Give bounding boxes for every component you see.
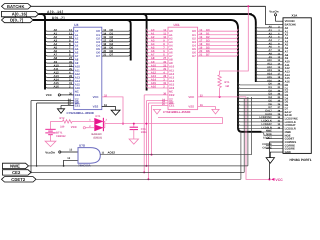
wire UX1 pin D5	[198, 46, 238, 49]
svg-text:330: 330	[60, 125, 65, 128]
wire UX1 pin A9	[147, 61, 168, 64]
svg-text:A16: A16	[54, 85, 60, 89]
svg-text:R?1: R?1	[225, 81, 230, 84]
wire U4 pin D7	[102, 54, 131, 57]
gate U?D 74HC00A	[78, 148, 100, 164]
junction BATCHK	[247, 5, 249, 7]
wire UX1 pin A8	[147, 57, 168, 60]
svg-text:13: 13	[103, 29, 106, 32]
ground UX1 VSS	[212, 109, 219, 114]
port D[0..7]	[2, 17, 34, 22]
svg-text:20: 20	[103, 50, 106, 53]
svg-text:23: 23	[69, 64, 72, 67]
wire U4 pin A8	[45, 57, 74, 60]
wire NWE line	[29, 165, 248, 167]
svg-text:23: 23	[163, 64, 166, 67]
wire VCC net vertical	[246, 97, 270, 179]
wire UX1 pin WE	[148, 102, 168, 104]
junction UX1 CE1	[151, 154, 153, 156]
svg-text:100n: 100n	[141, 131, 147, 134]
svg-text:18: 18	[199, 43, 202, 46]
wire UX1 pin A11	[147, 68, 168, 71]
wire UX1 pin A13	[147, 75, 168, 78]
wire UX1 pin A3	[147, 39, 168, 42]
svg-text:VCC: VCC	[93, 95, 99, 99]
svg-text:12: 12	[163, 29, 166, 32]
wire UX1 pin D7	[198, 54, 238, 57]
ground X1A GND	[266, 158, 274, 164]
port NWE	[3, 163, 29, 168]
svg-text:27: 27	[163, 57, 166, 60]
junction U4 WE	[36, 165, 38, 167]
svg-text:25: 25	[69, 68, 72, 71]
svg-text:26: 26	[69, 61, 72, 64]
ground C1	[129, 139, 138, 144]
svg-text:28: 28	[69, 75, 72, 78]
wire BATCHK sense vertical	[220, 6, 249, 75]
svg-text:VCC: VCC	[188, 95, 194, 99]
svg-text:CY62128ELL-45SXE: CY62128ELL-45SXE	[163, 110, 191, 114]
wire BATCHK	[31, 5, 266, 7]
wire U4 pin D0	[102, 29, 131, 32]
sram UX1	[168, 27, 198, 109]
wire UX1 pin D0	[198, 29, 238, 32]
wire U4 pin A2	[45, 36, 74, 39]
svg-text:UX1: UX1	[174, 23, 180, 27]
junction UX1 WE	[147, 178, 149, 180]
svg-text:74HC00A: 74HC00A	[78, 163, 92, 167]
bus D main vertical (right)	[231, 20, 262, 132]
svg-text:21: 21	[199, 54, 202, 57]
wire UX1 pin D4	[198, 43, 238, 46]
svg-text:1M: 1M	[225, 85, 229, 88]
svg-text:28: 28	[163, 75, 166, 78]
bus connector feed vertical (A)	[249, 14, 256, 82]
wire UX1 pin A2	[147, 36, 168, 39]
svg-text:19: 19	[199, 47, 202, 50]
wire U4 pin A0	[45, 29, 74, 32]
wire U4 pin A7	[45, 54, 74, 57]
ground U4 CE1	[57, 109, 64, 114]
wire U4 pin A5	[45, 46, 74, 49]
svg-text:BATCHK: BATCHK	[7, 4, 25, 9]
svg-text:D7: D7	[206, 53, 210, 57]
svg-text:D7: D7	[96, 54, 100, 58]
svg-text:CY62128ELL-45SXE: CY62128ELL-45SXE	[67, 111, 95, 115]
svg-text:VCC: VCC	[275, 178, 283, 182]
svg-text:11: 11	[163, 32, 166, 35]
wire U4 pin A11	[45, 68, 74, 71]
wire UX1 pin D6	[198, 50, 238, 53]
bus UX1 address vertical	[143, 14, 147, 90]
wire UX1 pin A1	[147, 32, 168, 35]
svg-text:VCC: VCC	[46, 93, 53, 97]
svg-text:CODET: CODET	[263, 136, 272, 139]
wire UX1 pin A10	[147, 64, 168, 67]
wire CE2 line	[31, 171, 244, 173]
wire U4 pin OE	[31, 100, 74, 102]
svg-text:13: 13	[199, 29, 202, 32]
svg-text:15: 15	[103, 36, 106, 39]
port CDET2	[2, 177, 37, 182]
wire U4 pin A13	[45, 75, 74, 78]
wire UX1 pin A5	[147, 46, 168, 49]
svg-text:CE2: CE2	[12, 170, 21, 175]
svg-text:VCC: VCC	[71, 125, 78, 129]
svg-text:17: 17	[103, 39, 106, 42]
svg-text:19: 19	[103, 47, 106, 50]
svg-text:GND: GND	[285, 151, 291, 154]
wire VSS link	[158, 118, 223, 124]
svg-text:U4: U4	[74, 23, 78, 27]
wire UX1 pin A4	[147, 43, 168, 46]
svg-text:AOE2: AOE2	[108, 151, 116, 155]
wire UX1 CE2	[144, 94, 168, 96]
svg-text:D?1: D?1	[96, 115, 101, 118]
junction rail/control	[145, 123, 147, 125]
svg-text:CE2: CE2	[169, 93, 175, 97]
wire UX1 pin A14	[147, 78, 168, 81]
svg-text:18: 18	[103, 43, 106, 46]
bus D vertical (left)	[127, 20, 131, 61]
svg-text:R?2: R?2	[60, 117, 65, 120]
wire UX1 pin A7	[147, 54, 168, 57]
svg-text:A[0..16]: A[0..16]	[47, 10, 64, 14]
wire UX1 pin D3	[198, 39, 238, 42]
wire U4 pin A14	[45, 78, 74, 81]
svg-text:25: 25	[163, 68, 166, 71]
svg-text:15: 15	[199, 36, 202, 39]
svg-text:CR2032: CR2032	[56, 135, 66, 138]
bus A[0..16] horizontal	[39, 13, 252, 15]
junction gate pin 12	[63, 165, 65, 167]
wire UX1 pin A6	[147, 50, 168, 53]
svg-text:X1A: X1A	[292, 13, 299, 17]
wire BATCHK to pin 2	[266, 6, 284, 24]
svg-text:A[0..16]: A[0..16]	[12, 12, 28, 17]
wire U4 pin A12	[45, 71, 74, 74]
bus U4 address vertical	[41, 14, 45, 89]
ground battery	[45, 141, 56, 146]
svg-text:BT?1: BT?1	[56, 131, 63, 134]
svg-text:HP48G PORT1: HP48G PORT1	[290, 158, 312, 162]
svg-text:CE2: CE2	[75, 93, 81, 97]
svg-text:D[0..7]: D[0..7]	[52, 16, 65, 20]
svg-text:31: 31	[163, 82, 166, 85]
svg-text:14: 14	[199, 32, 202, 35]
svg-text:26: 26	[163, 61, 166, 64]
wire U4 pin D1	[102, 32, 131, 35]
junction UX1 CE2	[143, 171, 145, 173]
junction U4 VCC on rail	[122, 123, 124, 125]
junction R1 bottom	[219, 96, 221, 98]
svg-text:VccOn: VccOn	[45, 150, 55, 154]
svg-text:31: 31	[69, 82, 72, 85]
wire UX1 pin A15	[147, 82, 168, 85]
wire UX1 pin A0	[147, 29, 168, 32]
wire U4 pin CE1	[61, 104, 74, 106]
svg-text:U?D: U?D	[79, 144, 86, 148]
svg-text:D7: D7	[192, 54, 196, 58]
wire U4 pin D3	[102, 39, 131, 42]
svg-text:CE1: CE1	[75, 103, 81, 107]
svg-text:VccOn: VccOn	[269, 10, 278, 14]
wire UX1 pin OE	[146, 100, 168, 102]
junction U4 OE	[30, 172, 32, 174]
wire U4 pin D5	[102, 46, 131, 49]
wire UX1 pin D1	[198, 32, 238, 35]
svg-text:D7: D7	[110, 53, 114, 57]
port CE2	[3, 170, 32, 175]
wire U4 pin WE	[37, 102, 74, 104]
svg-text:20: 20	[199, 50, 202, 53]
wire U4 pin D4	[102, 43, 131, 46]
wire U4 pin A15	[45, 82, 74, 85]
wire VccOn to pin 1	[276, 16, 284, 21]
svg-text:21: 21	[103, 54, 106, 57]
svg-text:14: 14	[103, 32, 106, 35]
ground UX1 bottom-left	[156, 109, 158, 111]
svg-text:CO1IRE: CO1IRE	[262, 146, 272, 149]
wire UX1 pin CE1	[152, 104, 169, 106]
svg-text:17: 17	[199, 39, 202, 42]
svg-text:10: 10	[69, 36, 72, 39]
wire U4 pin A10	[45, 64, 74, 67]
wire UX1 pin A12	[147, 71, 168, 74]
wire U4 pin A16	[45, 86, 74, 89]
junction C1 on rail	[133, 123, 135, 125]
wire gate pin 12	[64, 160, 78, 166]
ground U4 VSS	[111, 110, 120, 115]
wire CDET2 line	[36, 178, 241, 180]
bus D[0..7] horizontal	[33, 19, 231, 21]
port BATCHK	[2, 4, 32, 9]
wire U4 pin A3	[45, 39, 74, 42]
wire U4 pin A4	[45, 43, 74, 46]
wire UX1 pin A16	[147, 86, 168, 89]
svg-text:27: 27	[69, 57, 72, 60]
junction VCC node	[268, 178, 270, 180]
wire U4 pin A9	[45, 61, 74, 64]
svg-text:VSS: VSS	[188, 105, 194, 109]
svg-text:12: 12	[69, 29, 72, 32]
svg-text:D[0..7]: D[0..7]	[10, 18, 24, 23]
svg-text:10: 10	[163, 36, 166, 39]
wire U4 pin A1	[45, 32, 74, 35]
wire UX1 pin D2	[198, 36, 238, 39]
connector X1A body	[283, 18, 311, 154]
wire U4 pin A6	[45, 50, 74, 53]
junction UX1 OE	[145, 165, 147, 167]
sram U4	[74, 27, 102, 109]
svg-text:(DB23): (DB23)	[94, 137, 102, 140]
port A[0..16]	[2, 11, 39, 16]
svg-text:CE1: CE1	[169, 103, 175, 107]
power flag VCC bottom	[271, 178, 275, 181]
svg-text:CDET2: CDET2	[11, 177, 26, 182]
svg-text:A16: A16	[151, 85, 157, 89]
wire U4 pin D6	[102, 50, 131, 53]
svg-text:NWE: NWE	[10, 163, 20, 168]
svg-text:VSS: VSS	[93, 105, 99, 109]
wire VCC rail	[105, 123, 223, 125]
wire U4 pin D2	[102, 36, 131, 39]
svg-text:30: 30	[69, 92, 72, 95]
